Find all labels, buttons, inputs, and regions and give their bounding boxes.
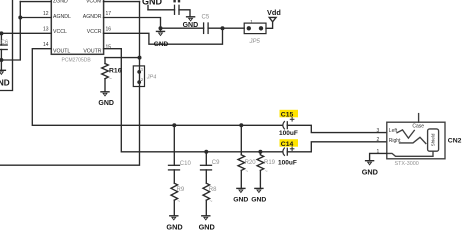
- capacitor C6: [0, 33, 9, 60]
- connector CN2 jack STX-3000: [387, 114, 445, 159]
- resistor R16: [102, 58, 122, 92]
- svg-text:~: ~: [245, 169, 248, 175]
- resistor R20: [238, 125, 256, 188]
- svg-text:14: 14: [43, 42, 49, 48]
- svg-text:~: ~: [109, 77, 112, 83]
- pin Case stub: [418, 114, 420, 123]
- wire VOUTR pin 15 right channel rail: [104, 49, 283, 152]
- wire CN2 pin1 to ground: [370, 153, 387, 160]
- svg-text:C6: C6: [1, 40, 9, 46]
- svg-text:C15: C15: [281, 112, 294, 119]
- node C6 gnd wire junction: [0, 58, 3, 62]
- wire VCOM vertical through JP4 to rail: [0, 2, 140, 166]
- capacitor bypass top (cut label): [173, 0, 180, 14]
- wire shield to pin1: [387, 151, 433, 156]
- svg-text:GND: GND: [142, 0, 163, 7]
- node R20 rail junction: [239, 123, 243, 127]
- wire VCCL pin 13: [0, 32, 51, 34]
- capacitor C10: [169, 125, 192, 170]
- resistor R19: [257, 152, 276, 189]
- svg-text:VCCL: VCCL: [53, 29, 67, 35]
- wire AGNDL pin 12: [20, 17, 51, 19]
- svg-text:GND: GND: [251, 196, 266, 203]
- svg-text:Vdd: Vdd: [267, 8, 281, 17]
- svg-text:~: ~: [210, 199, 213, 205]
- svg-text:R20: R20: [245, 160, 257, 166]
- svg-text:~: ~: [177, 199, 180, 205]
- node R16 wire junction: [138, 56, 142, 60]
- ground R9: [166, 216, 182, 232]
- svg-text:100uF: 100uF: [279, 130, 298, 137]
- svg-text:VCCR: VCCR: [87, 29, 102, 35]
- connector JP4: [133, 66, 156, 87]
- wire C15 to CN2 pin3: [287, 125, 387, 132]
- wire ZGND/AGNDL down to gnd net: [0, 2, 20, 60]
- svg-text:GND: GND: [233, 196, 248, 203]
- svg-text:12: 12: [43, 11, 49, 17]
- svg-text:Left: Left: [389, 128, 398, 134]
- op-amp U1 IC PCM2705DB body: [51, 0, 103, 54]
- connector JP5: [244, 19, 266, 45]
- svg-text:STX-3000: STX-3000: [395, 161, 419, 167]
- svg-text:R16: R16: [109, 68, 122, 75]
- ground net label top (cut): [142, 0, 163, 10]
- svg-text:Case: Case: [412, 124, 424, 130]
- svg-text:17: 17: [106, 11, 112, 17]
- capacitor C9: [201, 152, 221, 170]
- svg-text:13: 13: [43, 26, 49, 32]
- svg-text:VOUTL: VOUTL: [53, 48, 70, 54]
- wire ZGND pin 11: [20, 1, 51, 3]
- node AGNDL junction: [18, 16, 22, 20]
- node C5 right junction: [221, 26, 225, 30]
- wire VOUTL pin 14 left channel rail: [32, 49, 282, 126]
- node C10 rail junction: [172, 123, 176, 127]
- svg-text:1: 1: [377, 149, 380, 155]
- svg-text:AGNDL: AGNDL: [53, 14, 71, 20]
- jack left contact: [397, 130, 414, 138]
- ground R20: [233, 188, 248, 203]
- svg-text:VCOM: VCOM: [86, 0, 102, 5]
- svg-text:3: 3: [377, 128, 380, 134]
- svg-text:JP5: JP5: [249, 39, 261, 45]
- svg-text:PCM2705DB: PCM2705DB: [62, 58, 92, 64]
- wire VCOM pin: [104, 1, 140, 3]
- ground AGNDR node: [154, 28, 169, 48]
- node C5 left junction: [159, 26, 163, 30]
- svg-text:~: ~: [265, 169, 268, 175]
- svg-text:GND: GND: [154, 41, 169, 48]
- wire VCCR pin 16: [104, 28, 223, 44]
- wire JP5 to Vdd: [266, 22, 273, 29]
- svg-text:100uF: 100uF: [278, 160, 297, 167]
- IC pin names and numbers: [53, 0, 102, 54]
- svg-text:Shield: Shield: [431, 133, 436, 146]
- resistor R8: [203, 170, 217, 215]
- svg-text:R19: R19: [264, 160, 276, 166]
- svg-text:C9: C9: [212, 160, 220, 166]
- svg-text:C5: C5: [202, 15, 210, 21]
- svg-text:GND: GND: [199, 222, 215, 231]
- ground R8: [199, 216, 215, 232]
- svg-text:GND: GND: [98, 100, 114, 107]
- wire C14 to CN2 pin2: [287, 142, 387, 152]
- wire AGNDR pin 17: [104, 18, 161, 29]
- svg-text:VOUTR: VOUTR: [83, 48, 101, 54]
- wire gnd to bypass cap: [148, 9, 175, 11]
- ground CN2 pin1: [362, 161, 378, 177]
- capacitor C14 100uF: [278, 139, 298, 166]
- ground R19: [251, 188, 266, 203]
- svg-text:16: 16: [106, 26, 112, 32]
- svg-text:GND: GND: [362, 167, 378, 176]
- node R19 rail junction: [258, 150, 262, 154]
- capacitor C5: [161, 15, 245, 34]
- wire R16 to VOUTR vertical: [105, 57, 140, 59]
- wire vertical bus left cut: [0, 0, 13, 91]
- node C6/VCCL junction: [0, 31, 3, 35]
- svg-text:AGNDR: AGNDR: [83, 14, 102, 20]
- svg-text:GND: GND: [166, 222, 182, 231]
- ground bypass cap: [183, 17, 199, 29]
- power Vdd: [267, 8, 281, 22]
- ground C6: [0, 60, 10, 87]
- svg-text:C10: C10: [180, 161, 192, 167]
- capacitor C15 100uF: [279, 110, 298, 137]
- jack right contact: [400, 137, 426, 143]
- shield block: [428, 129, 439, 151]
- ground R16: [98, 92, 114, 107]
- svg-text:2: 2: [377, 137, 380, 143]
- svg-text:15: 15: [106, 44, 112, 50]
- svg-text:C14: C14: [281, 141, 294, 148]
- svg-text:R8: R8: [209, 187, 217, 193]
- wire bypass cap to ground: [179, 10, 190, 16]
- resistor R9: [171, 170, 185, 215]
- svg-text:CN2: CN2: [448, 137, 462, 144]
- svg-text:R9: R9: [177, 187, 185, 193]
- svg-text:JP4: JP4: [146, 74, 156, 80]
- node C9 rail junction: [204, 150, 208, 154]
- svg-text:GND: GND: [0, 78, 10, 87]
- svg-text:ZGND: ZGND: [53, 0, 68, 5]
